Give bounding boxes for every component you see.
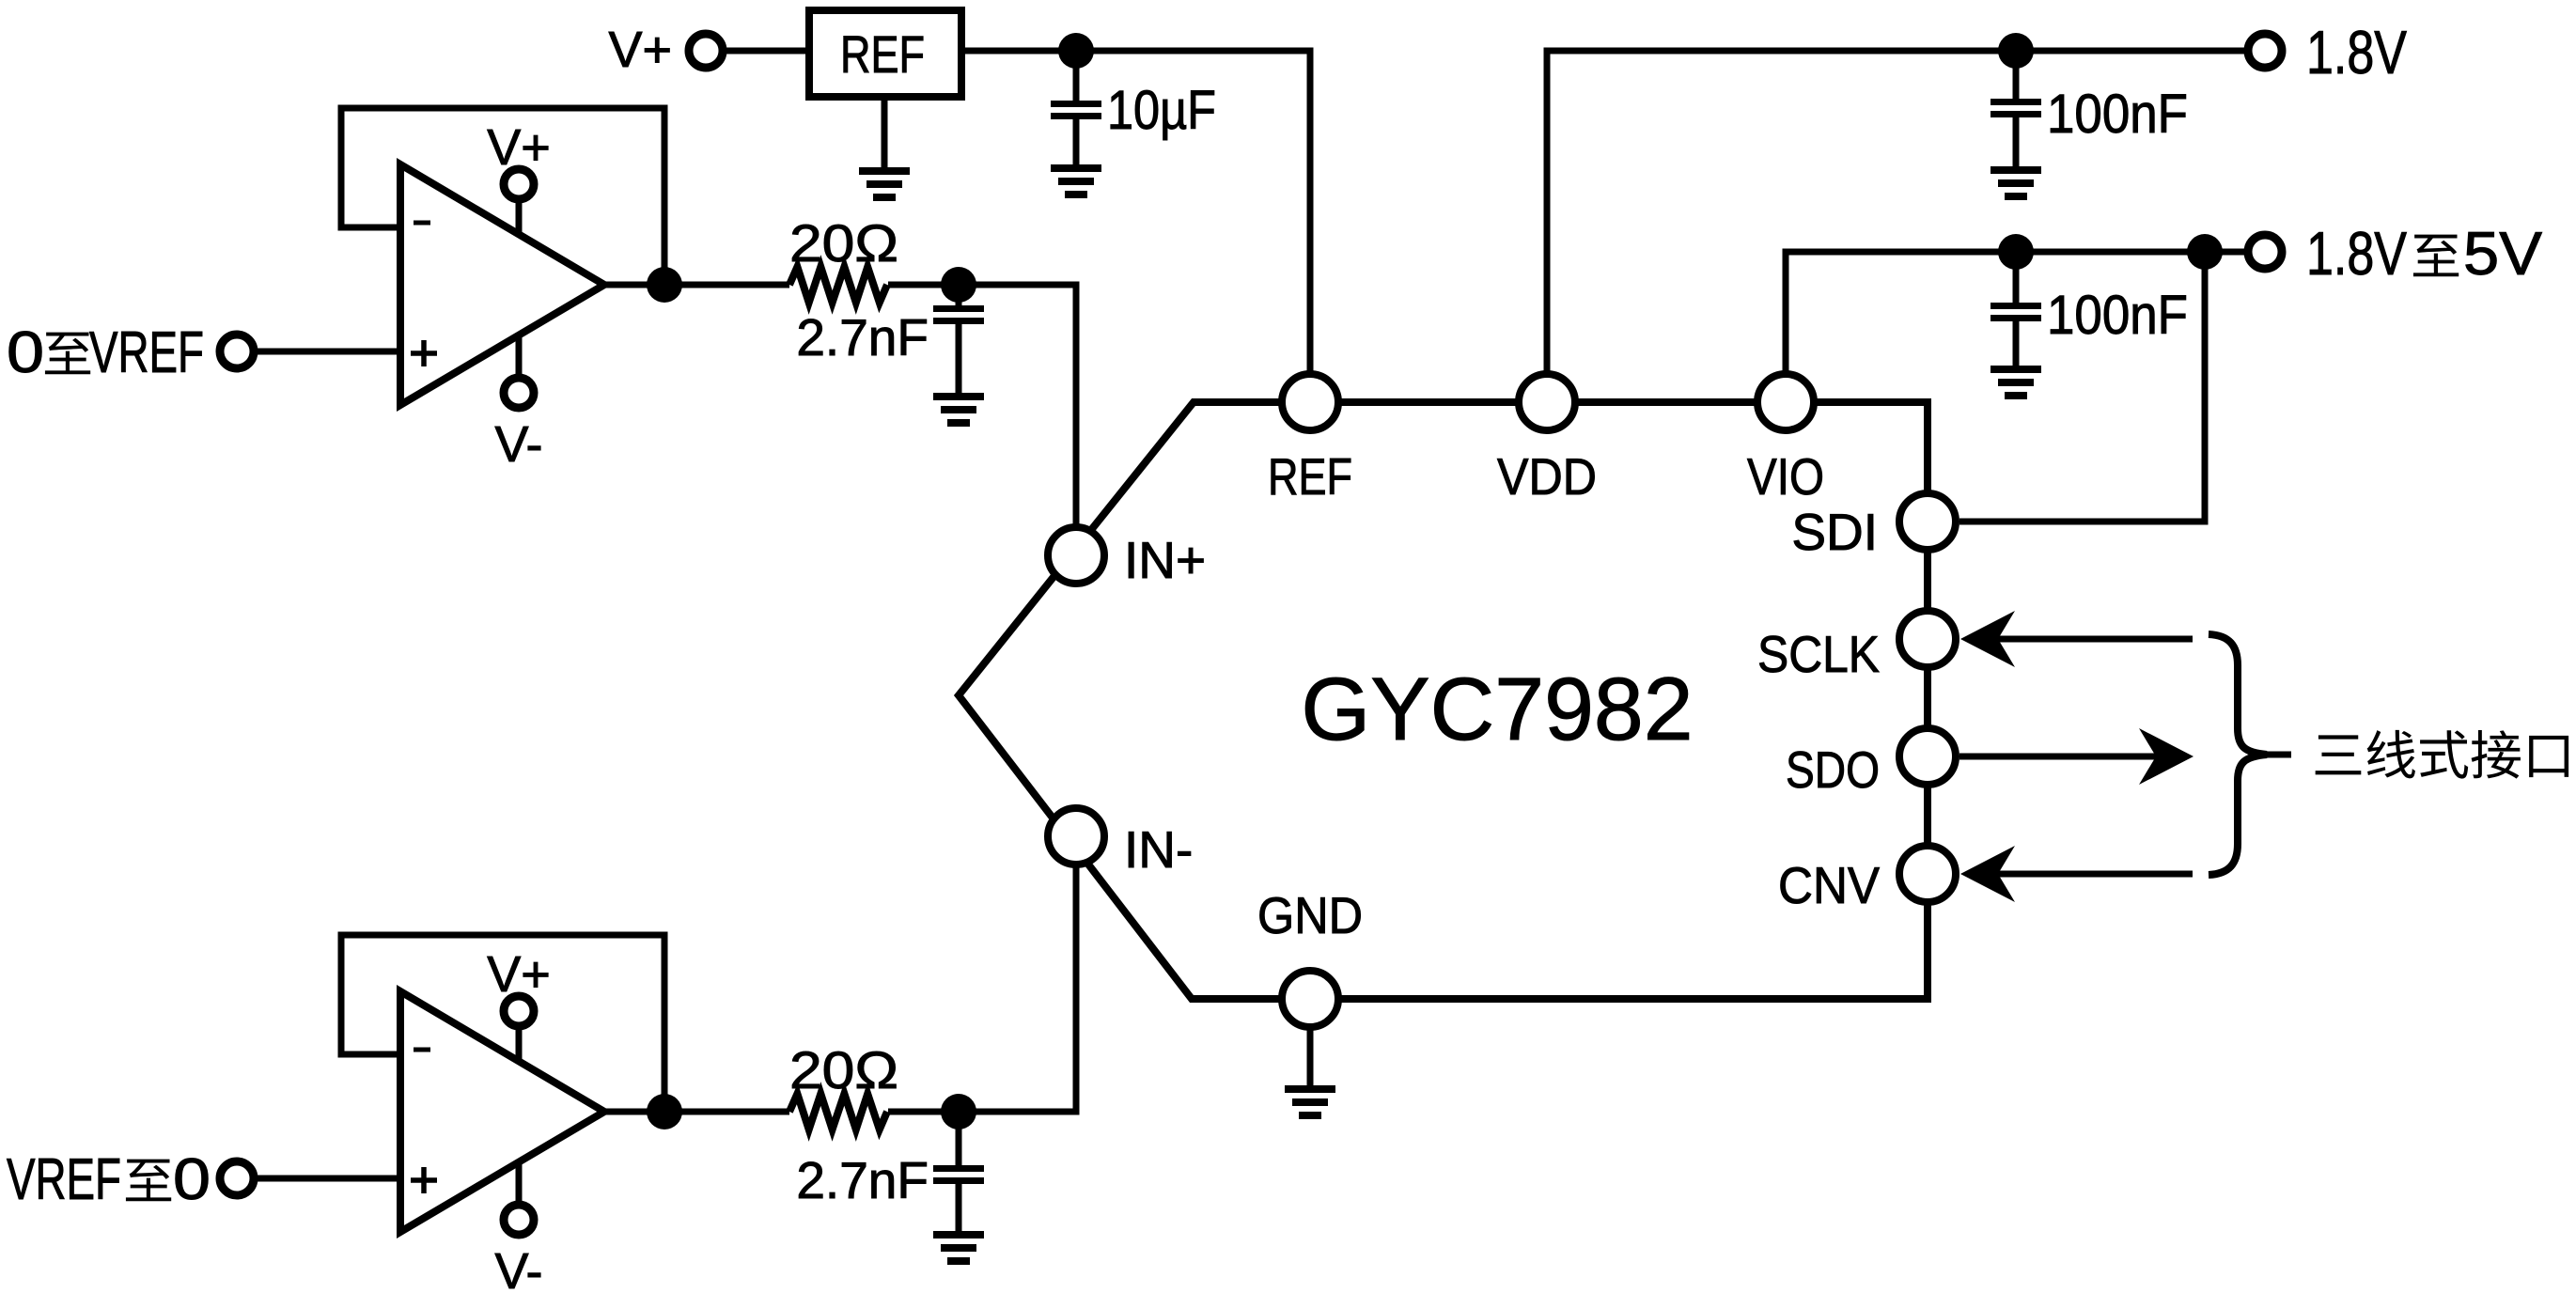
svg-text:V-: V- — [494, 1243, 542, 1293]
svg-text:V-: V- — [494, 416, 542, 473]
svg-text:GND: GND — [1257, 886, 1363, 944]
svg-text:100nF: 100nF — [2047, 285, 2188, 346]
svg-text:REF: REF — [1268, 447, 1352, 506]
svg-text:0: 0 — [7, 320, 44, 385]
svg-text:REF: REF — [840, 24, 925, 84]
svg-text:10µF: 10µF — [1107, 80, 1216, 141]
svg-text:SDO: SDO — [1786, 740, 1880, 799]
svg-text:VIO: VIO — [1747, 447, 1824, 506]
svg-text:SCLK: SCLK — [1757, 625, 1880, 683]
svg-text:GYC7982: GYC7982 — [1301, 660, 1693, 759]
svg-text:V+: V+ — [487, 119, 551, 176]
svg-text:VREF: VREF — [89, 320, 204, 385]
svg-text:SDI: SDI — [1791, 503, 1878, 561]
svg-text:1.8V: 1.8V — [2306, 18, 2408, 86]
svg-text:VDD: VDD — [1497, 447, 1597, 506]
svg-text:2.7nF: 2.7nF — [796, 308, 929, 366]
svg-text:CNV: CNV — [1778, 856, 1880, 914]
svg-text:IN+: IN+ — [1124, 531, 1206, 589]
svg-text:20Ω: 20Ω — [789, 213, 898, 273]
svg-text:1.8V: 1.8V — [2306, 219, 2408, 288]
svg-text:IN-: IN- — [1124, 820, 1193, 879]
svg-text:2.7nF: 2.7nF — [796, 1151, 929, 1209]
svg-text:5V: 5V — [2463, 219, 2543, 288]
svg-text:0: 0 — [173, 1147, 211, 1212]
svg-text:V+: V+ — [487, 946, 551, 1003]
svg-text:VREF: VREF — [7, 1147, 121, 1212]
svg-text:100nF: 100nF — [2047, 84, 2188, 145]
svg-text:20Ω: 20Ω — [789, 1040, 898, 1099]
svg-text:V+: V+ — [608, 22, 672, 78]
